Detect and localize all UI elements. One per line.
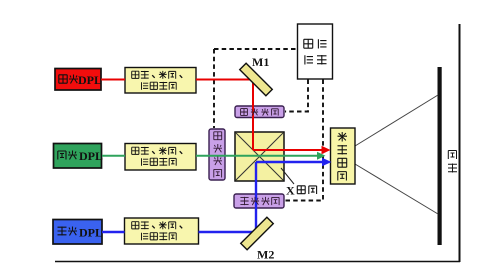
svg-text:DPL: DPL: [79, 226, 103, 240]
svg-text:M2: M2: [257, 248, 274, 262]
svg-text:X: X: [286, 184, 295, 198]
svg-text:DPL: DPL: [79, 149, 103, 163]
svg-text:M1: M1: [252, 55, 269, 69]
svg-text:DPL: DPL: [78, 73, 102, 87]
